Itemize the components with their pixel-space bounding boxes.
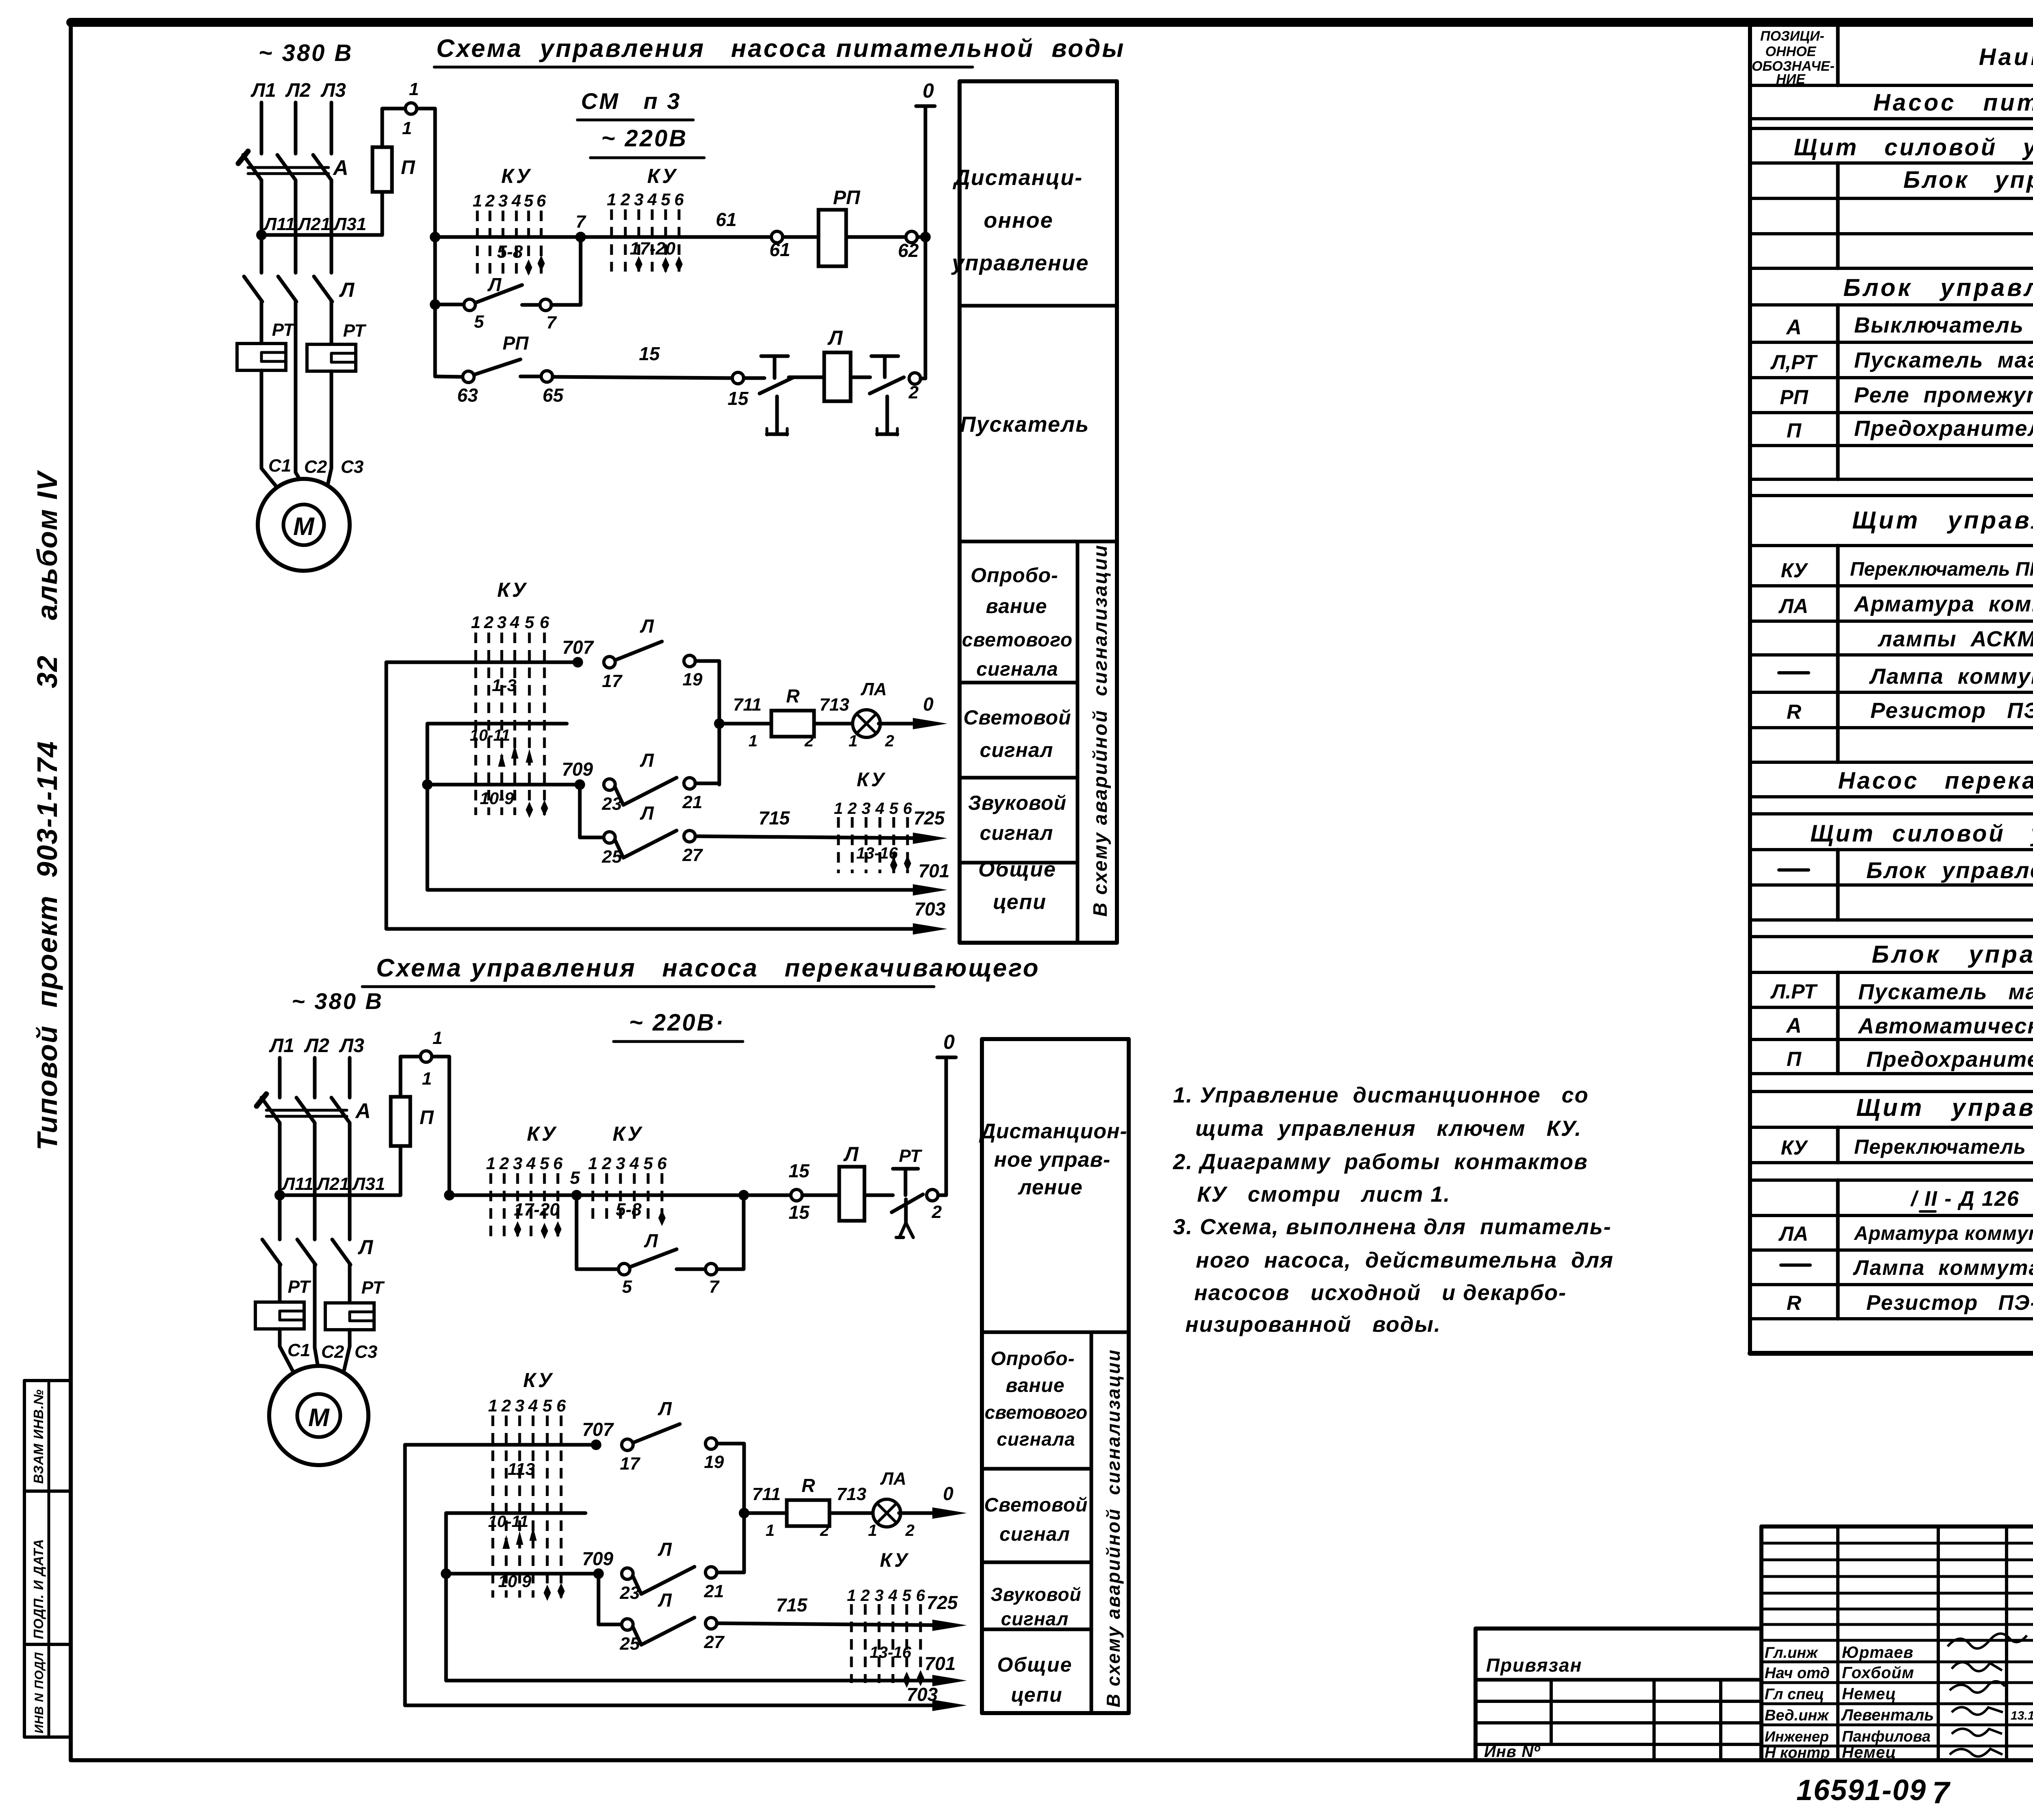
svg-text:725: 725: [914, 807, 945, 828]
fuse П: [372, 147, 392, 192]
svg-text:~ 380 В: ~ 380 В: [259, 40, 353, 66]
svg-text:2: 2: [601, 1154, 611, 1173]
svg-text:Блок управления: Блок управления: [1866, 857, 2033, 883]
svg-text:Гохбойм: Гохбойм: [1842, 1664, 1914, 1682]
junction 709 bracket s2: [441, 1568, 451, 1579]
wire to circle 65: [520, 375, 541, 378]
wire pole3 to РТ2: [330, 302, 333, 344]
wire to contact Л-5: [435, 303, 464, 307]
row 709 wire s2: [446, 1572, 599, 1576]
arrow 0 s2: [932, 1507, 967, 1519]
svg-text:0: 0: [923, 79, 934, 102]
svg-text:2: 2: [905, 1522, 914, 1539]
svg-text:КУ: КУ: [1781, 1136, 1809, 1159]
РТ break contact s2: [892, 1169, 923, 1237]
travel marks down s2: [544, 1583, 565, 1601]
svg-text:Арматура коммутаторной лампы: Арматура коммутаторной лампы АСКМ: [1854, 1223, 2033, 1244]
wire blade to 7 s2: [677, 1268, 705, 1271]
svg-text:4: 4: [509, 613, 519, 632]
svg-text:ИНВ N ПОДЛ: ИНВ N ПОДЛ: [33, 1652, 46, 1733]
table row ЛА арматура коммутаторной: [1778, 592, 2033, 618]
svg-text:2: 2: [847, 800, 857, 818]
break contact blade 709: [615, 778, 677, 805]
svg-text:Л: Л: [339, 278, 355, 301]
contact circle 21 s2: [705, 1567, 717, 1578]
subtitle СМ п 3: [577, 88, 693, 120]
wire pole1 to РТ1: [260, 302, 263, 344]
svg-text:Схема управления насоса пе: Схема управления насоса перекачивающего: [376, 954, 1040, 982]
svg-text:61: 61: [769, 239, 790, 260]
svg-text:ЛА: ЛА: [880, 1469, 906, 1489]
subtitle ~220В: [590, 125, 704, 158]
wire phase Л3: [330, 102, 333, 154]
svg-text:713: 713: [836, 1484, 866, 1504]
svg-text:Левенталь: Левенталь: [1841, 1706, 1934, 1724]
wire 19 to node 711: [695, 661, 719, 785]
svg-text:Щит управления: Щит управления: [1852, 507, 2033, 534]
junction 709 on inner bracket: [422, 779, 433, 790]
svg-text:2: 2: [483, 613, 493, 632]
wire 21 to node 711 drop: [695, 782, 719, 785]
wire terminal to bus s2: [432, 1057, 449, 1195]
row 709 wire: [427, 783, 580, 787]
motor M inner circle: [283, 504, 324, 545]
КУ2 travel marks: [635, 256, 683, 273]
breaker A pole 3: [313, 155, 331, 180]
svg-text:3: 3: [634, 190, 643, 209]
arrow 703: [913, 923, 947, 935]
КУ1 dashed contact lines: [477, 211, 541, 276]
svg-text:КУ: КУ: [527, 1122, 558, 1145]
wire phase Л1 s2: [278, 1058, 282, 1098]
table row — Блок управления: [1779, 857, 2033, 883]
arrow 0: [913, 718, 947, 729]
wire 65 to 15: [553, 377, 732, 378]
lamp ЛА s2: [873, 1499, 901, 1527]
Привязан box: [1476, 1629, 1761, 1760]
table row П предохранитель (2): [1787, 1047, 2033, 1072]
svg-text:6: 6: [903, 800, 912, 818]
svg-text:2. Диаграмму работы контакто: 2. Диаграмму работы контактов: [1173, 1150, 1588, 1174]
wire to РП coil: [783, 235, 818, 239]
svg-text:1: 1: [486, 1154, 495, 1173]
contact circle 7 s2: [705, 1263, 717, 1275]
svg-text:А: А: [1785, 315, 1802, 339]
svg-text:~ 220В·: ~ 220В·: [629, 1009, 725, 1036]
svg-text:5-8: 5-8: [497, 242, 523, 262]
wire 62 to 0-bus: [917, 235, 925, 239]
arrow 703 s2: [932, 1700, 967, 1711]
section label Общие цепи: [978, 858, 1056, 914]
contact circle 21: [684, 778, 695, 789]
svg-text:4: 4: [888, 1587, 897, 1605]
svg-text:2: 2: [820, 1522, 829, 1539]
arrow 701: [913, 884, 947, 896]
outer bracket s2 (707-703): [405, 1445, 933, 1705]
svg-text:703: 703: [907, 1684, 938, 1705]
svg-text:5: 5: [902, 1587, 912, 1605]
svg-text:17: 17: [602, 671, 623, 691]
РП coil: [818, 210, 846, 266]
svg-text:управление: управление: [951, 251, 1089, 275]
annotation box schematic 1: [960, 81, 1117, 943]
svg-text:С2: С2: [304, 457, 327, 477]
svg-text:Переключатель ПМОВФ-1366, 9,: Переключатель ПМОВФ-1366, 9, 10₂ /: [1854, 1135, 2033, 1158]
svg-text:Гл спец: Гл спец: [1765, 1686, 1824, 1703]
svg-text:R: R: [786, 685, 799, 707]
svg-text:Л: Л: [640, 615, 654, 637]
КУ3 dashed contact lines: [476, 633, 544, 815]
КУ3 travel marks down: [526, 800, 548, 818]
row 707 wire s2: [405, 1443, 596, 1447]
svg-text:6: 6: [540, 613, 549, 632]
svg-text:РП: РП: [833, 187, 861, 209]
svg-text:Арматура коммутаторной: Арматура коммутаторной: [1853, 592, 2033, 616]
svg-text:Л31: Л31: [333, 214, 366, 234]
svg-text:13-16: 13-16: [870, 1644, 912, 1661]
svg-text:6: 6: [536, 191, 546, 210]
svg-text:Насос питательный: Насос питательный: [1873, 89, 2033, 116]
svg-text:713: 713: [819, 695, 849, 715]
breaker A pole 1: [238, 151, 261, 180]
svg-text:КУ: КУ: [1781, 559, 1809, 582]
svg-text:Л11: Л11: [281, 1174, 313, 1194]
contact circle 63: [463, 371, 474, 383]
svg-text:701: 701: [919, 860, 950, 881]
margin stamp cells grid: [24, 1381, 71, 1737]
junction node 711: [714, 718, 725, 729]
0 bus vertical: [924, 107, 927, 378]
svg-text:РТ: РТ: [361, 1278, 385, 1298]
contactor Л pole1 s2: [262, 1239, 281, 1265]
contact circle 65: [541, 371, 553, 382]
junction 707: [572, 657, 583, 668]
contact circle 61: [771, 231, 783, 243]
svg-text:715: 715: [759, 807, 790, 828]
wire coil to РВ right: [851, 376, 870, 379]
svg-text:13-16: 13-16: [856, 844, 898, 862]
table row R резистор ПЭ-25: [1787, 698, 2033, 723]
svg-text:Выключатель автоматический: Выключатель автоматический: [1854, 313, 2033, 337]
wire РТ1 to motor s2: [280, 1329, 294, 1374]
svg-text:709: 709: [582, 1548, 614, 1569]
arrow 725: [913, 833, 947, 844]
contact circle 25: [604, 832, 615, 843]
svg-text:7: 7: [576, 212, 587, 232]
svg-text:7: 7: [709, 1277, 720, 1297]
wire 709 to 715 s2: [597, 1574, 601, 1624]
svg-text:711: 711: [752, 1484, 781, 1504]
row 715 wire left: [580, 836, 604, 839]
svg-text:РТ: РТ: [899, 1146, 923, 1166]
svg-text:Немец: Немец: [1842, 1685, 1896, 1703]
svg-text:5: 5: [622, 1277, 632, 1297]
table row ЛА арматура коммутаторной лампы АСКМ: [1778, 1222, 2033, 1245]
svg-text:онное: онное: [984, 208, 1053, 233]
svg-text:/ II - Д 126: / II - Д 126: [1910, 1187, 2020, 1211]
svg-text:1: 1: [488, 1396, 497, 1415]
section label Звуковой сигнал s2: [990, 1584, 1081, 1629]
svg-text:В схему аварийной сигнализаци: В схему аварийной сигнализации: [1103, 1349, 1124, 1707]
svg-text:15: 15: [788, 1160, 810, 1181]
contact circle 5: [464, 299, 475, 311]
svg-text:Дистанци-: Дистанци-: [953, 165, 1083, 190]
wire phase Л2: [294, 102, 298, 154]
svg-text:Щит управления: Щит управления: [1856, 1094, 2033, 1121]
motor inner circle s2: [297, 1394, 340, 1437]
wire Л31: [330, 180, 333, 273]
svg-text:Л: Л: [640, 750, 654, 771]
svg-text:Предохранитель: Предохранитель: [1866, 1047, 2033, 1072]
contact circle 27: [684, 831, 695, 842]
wire Л11: [260, 180, 263, 273]
svg-text:ВЗАМ ИНВ.№: ВЗАМ ИНВ.№: [31, 1389, 46, 1484]
РВ timed contact left: [760, 356, 794, 435]
КУ group2 dashes s2: [593, 1173, 662, 1224]
svg-text:5: 5: [540, 1154, 549, 1173]
svg-text:711: 711: [733, 695, 762, 715]
wire РТ1 to motor: [261, 370, 281, 493]
svg-text:ного насоса, действительна: ного насоса, действительна для: [1196, 1248, 1614, 1272]
КУ group1 numbers s2: [486, 1154, 563, 1173]
contact circle 15: [732, 372, 744, 384]
svg-text:Л11: Л11: [263, 214, 295, 234]
svg-text:2: 2: [620, 190, 630, 209]
junction 707 s2: [591, 1439, 601, 1450]
staff row Нач отд Гохбойм: [1765, 1664, 1914, 1682]
thermal relay РТ element 2: [307, 344, 356, 371]
svg-text:Вед.инж: Вед.инж: [1765, 1707, 1829, 1724]
КУ2 contact numbers 1-6: [607, 190, 684, 209]
junction Л branch: [430, 299, 440, 310]
КУ group1 marks s2: [514, 1221, 562, 1239]
schematic 1 title: Схема управления насоса питательной воды: [434, 35, 1125, 67]
contact blade 707 s2: [634, 1424, 680, 1442]
annotation box schematic 2: [982, 1039, 1129, 1713]
parts table outer verticals: [1750, 22, 2033, 1353]
terminal circle 1 s2: [420, 1051, 432, 1062]
wire pole2 s2: [313, 1265, 317, 1348]
break blade 715 s2: [633, 1618, 694, 1645]
svg-text:низированной воды.: низированной воды.: [1185, 1312, 1441, 1337]
svg-text:Л1: Л1: [269, 1035, 294, 1057]
svg-text:Л: Л: [657, 1539, 672, 1560]
svg-text:КУ смотри лист 1.: КУ смотри лист 1.: [1197, 1182, 1450, 1207]
КУ4 dashes s2: [851, 1604, 921, 1683]
wire 15 to РВ contact: [744, 376, 764, 380]
svg-text:Щит силовой управления: Щит силовой управления: [1810, 820, 2033, 847]
wire 21 to node s2: [717, 1571, 744, 1574]
svg-text:19: 19: [683, 670, 703, 689]
svg-text:Л: Л: [657, 1590, 672, 1611]
svg-text:щита управления ключем КУ: щита управления ключем КУ.: [1195, 1116, 1582, 1141]
control tap wire s2: [280, 1194, 401, 1197]
terminal circle 1: [405, 103, 417, 114]
svg-text:Световой: Световой: [984, 1494, 1088, 1516]
breaker A crossbar: [248, 167, 329, 174]
svg-text:725: 725: [927, 1592, 958, 1613]
svg-text:0: 0: [943, 1031, 955, 1053]
wire fuse top lead: [382, 109, 405, 147]
break contact blade 715: [615, 831, 677, 858]
КУ1 contact numbers 1-6: [472, 191, 546, 210]
КУ group1 dashes s2: [491, 1173, 558, 1237]
svg-text:КУ: КУ: [613, 1122, 644, 1145]
table row РП реле промежуточное: [1780, 383, 2033, 409]
РП contact blade: [475, 359, 520, 374]
svg-text:Инв Nº: Инв Nº: [1484, 1743, 1541, 1761]
contact circle 7: [540, 299, 551, 311]
svg-text:Типовой проект 903-1-174: Типовой проект 903-1-174 32 альбом IV: [31, 470, 63, 1150]
svg-text:5: 5: [525, 613, 534, 632]
contact circle 23 s2: [622, 1568, 633, 1579]
table row R резистор ПЭ-25 (2): [1787, 1291, 2033, 1315]
svg-text:Л3: Л3: [320, 80, 346, 101]
svg-text:701: 701: [925, 1653, 956, 1674]
svg-text:ЛА: ЛА: [1778, 595, 1808, 618]
thermal element РТ1 s2: [255, 1302, 304, 1329]
svg-text:цепи: цепи: [993, 890, 1047, 914]
КУ signal numbers s2: [488, 1396, 566, 1415]
svg-text:сигнала: сигнала: [997, 1429, 1075, 1450]
contact blade Л 707: [616, 641, 662, 660]
КУ4 contact numbers: [834, 800, 912, 818]
table row А автоматический выключатель: [1785, 1014, 2033, 1038]
svg-text:А: А: [332, 156, 348, 180]
staff row Гл.инж Юртаев: [1765, 1644, 1913, 1661]
junction 709 end: [575, 779, 585, 790]
table row Лампа коммутаторная КМ5: [1779, 664, 2033, 689]
svg-text:1: 1: [402, 118, 412, 138]
svg-text:А: А: [1785, 1014, 1802, 1037]
svg-text:5-8: 5-8: [616, 1200, 642, 1220]
svg-text:Л21: Л21: [316, 1174, 349, 1194]
svg-text:сигнал: сигнал: [980, 822, 1054, 844]
svg-text:Л,РТ: Л,РТ: [1770, 351, 1818, 374]
svg-text:Щит силовой управления: Щит силовой управления: [1794, 134, 2033, 161]
wire lamp to arrow s2: [899, 1511, 933, 1515]
svg-text:709: 709: [562, 759, 593, 780]
arrow 725 s2: [932, 1620, 967, 1631]
wire node7 down: [579, 237, 583, 305]
contact Л blade: [476, 285, 522, 302]
wire control tap: [261, 233, 382, 237]
svg-text:Схема управления насоса пит: Схема управления насоса питательной воды: [436, 35, 1125, 63]
РВ timed contact right: [870, 356, 904, 435]
Л branch wire s2: [577, 1268, 618, 1271]
table row КУ переключатель (2): [1781, 1135, 2033, 1159]
svg-text:4: 4: [875, 800, 884, 818]
wire pole2 to motor s2: [315, 1348, 318, 1367]
wire blade to circle 7: [522, 303, 540, 307]
wire resistor to lamp s2: [829, 1511, 874, 1515]
svg-text:5: 5: [542, 1396, 552, 1415]
svg-text:707: 707: [582, 1419, 614, 1440]
junction node 711 s2: [739, 1508, 749, 1518]
svg-text:5: 5: [474, 312, 484, 332]
row 711 wire to resistor: [719, 722, 771, 726]
travel marks up s2: [503, 1527, 537, 1549]
svg-text:21: 21: [704, 1581, 724, 1601]
svg-text:1: 1: [472, 191, 482, 210]
svg-text:Инженер: Инженер: [1765, 1728, 1829, 1745]
svg-text:1: 1: [588, 1154, 597, 1173]
contact circle 19: [684, 655, 695, 667]
svg-text:1: 1: [749, 732, 757, 750]
svg-text:~ 220В: ~ 220В: [601, 125, 688, 152]
svg-text:Гл.инж: Гл.инж: [1765, 1644, 1818, 1661]
wire РП coil to 62: [846, 235, 906, 239]
contact blade Л s2: [631, 1249, 677, 1267]
wire pole2 down: [294, 302, 298, 472]
coil Л: [824, 352, 851, 401]
svg-text:В схему аварийной сигнализаци: В схему аварийной сигнализации: [1090, 544, 1111, 917]
svg-text:715: 715: [776, 1594, 808, 1616]
svg-text:25: 25: [602, 847, 622, 867]
wire pole1 РТ s2: [278, 1265, 282, 1302]
svg-text:1. Управление дистанционное: 1. Управление дистанционное со: [1173, 1083, 1589, 1107]
svg-text:1: 1: [422, 1069, 432, 1089]
svg-text:10-11: 10-11: [488, 1513, 528, 1531]
contact circle 5 s2: [618, 1263, 630, 1275]
svg-text:3: 3: [616, 1154, 625, 1173]
svg-text:Опробо-: Опробо-: [971, 564, 1058, 587]
КУ3 contact numbers 1-6: [471, 613, 549, 632]
svg-text:Юртаев: Юртаев: [1842, 1644, 1913, 1661]
svg-text:27: 27: [682, 845, 703, 865]
svg-text:Л3: Л3: [339, 1035, 364, 1057]
svg-text:ПОЗИЦИ-: ПОЗИЦИ-: [1760, 28, 1824, 44]
svg-text:19: 19: [704, 1452, 724, 1472]
wire terminal to control bus: [417, 109, 435, 237]
table row КУ переключатель: [1781, 559, 2033, 582]
0 bus vertical s2: [945, 1059, 948, 1195]
table row Л,РТ пускатель магнитный: [1770, 348, 2033, 374]
section label Опробование светового сигнала: [962, 564, 1073, 680]
svg-text:27: 27: [704, 1632, 725, 1652]
table row лампы АСКМ: [1877, 627, 2033, 651]
section label Общие цепи s2: [997, 1653, 1073, 1706]
svg-text:17-20: 17-20: [514, 1200, 560, 1220]
svg-text:КУ: КУ: [647, 165, 679, 187]
svg-text:Резистор ПЭ- 25: Резистор ПЭ- 25: [1866, 1291, 2033, 1315]
thermal relay РТ element 1: [237, 344, 286, 370]
wire node5 down s2: [575, 1195, 579, 1269]
svg-text:РТ: РТ: [343, 321, 367, 341]
wire circle2 to 0-bus: [921, 377, 925, 381]
svg-text:ОННОЕ: ОННОЕ: [1765, 44, 1817, 59]
svg-text:Блок управления: Блок управления: [1903, 167, 2033, 193]
svg-text:4: 4: [528, 1396, 538, 1415]
lamp ЛА: [853, 710, 880, 737]
svg-text:Наименование: Наименование: [1979, 44, 2033, 70]
svg-text:П: П: [1787, 419, 1802, 442]
breaker A pole3 s2: [331, 1098, 350, 1123]
svg-text:Звуковой: Звуковой: [990, 1584, 1081, 1605]
svg-text:4: 4: [647, 190, 657, 209]
svg-text:Л.РТ: Л.РТ: [1770, 980, 1818, 1003]
svg-text:С1: С1: [268, 456, 291, 476]
svg-text:П: П: [401, 157, 416, 178]
svg-text:С1: С1: [287, 1340, 310, 1360]
row 715 wire left s2: [599, 1623, 622, 1626]
svg-text:Л21: Л21: [297, 214, 331, 234]
contact circle 62: [906, 231, 917, 243]
svg-text:Общие: Общие: [997, 1653, 1073, 1676]
svg-text:16591-09: 16591-09: [1796, 1774, 1926, 1807]
svg-text:Переключатель ПМОВФ-1366₃9₁10₂: Переключатель ПМОВФ-1366₃9₁10₂/II-Д126: [1850, 559, 2033, 580]
schematic 2 title: Схема управления насоса перекачивающего: [362, 954, 1040, 987]
